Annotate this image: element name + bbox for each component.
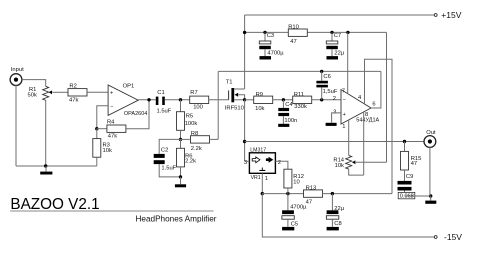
ground symbol C4	[278, 116, 289, 127]
wire pin4 supply route	[365, 59, 393, 193]
svg-text:R10: R10	[288, 25, 299, 31]
svg-text:22µ: 22µ	[334, 206, 344, 212]
svg-text:Input: Input	[11, 67, 24, 73]
resistor R8	[191, 131, 210, 152]
node A R5-R8-R6-C2	[179, 138, 182, 141]
svg-text:-15V: -15V	[444, 232, 462, 242]
capacitor C4	[278, 100, 297, 124]
svg-text:R9: R9	[256, 92, 263, 98]
svg-text:10k: 10k	[335, 163, 344, 169]
wire input shield down	[15, 86, 17, 167]
wire R1 bottom to ground rail	[45, 100, 47, 166]
wire T1 drain to +15 rail	[244, 32, 246, 89]
node rail C7 junction	[330, 31, 333, 34]
resistor R4	[107, 120, 126, 140]
wire R2 to OP1 noninv	[87, 91, 108, 93]
node C6 bottom junction	[320, 98, 323, 101]
svg-text:IRF510: IRF510	[225, 105, 244, 111]
svg-text:1,5uF: 1,5uF	[323, 89, 338, 95]
resistor R13	[304, 186, 323, 206]
voltage regulator VR1 LM317	[244, 148, 281, 183]
potentiometer R1	[28, 86, 49, 100]
node rail C3 junction	[263, 31, 266, 34]
node OP1 output junction	[147, 98, 150, 101]
resistor R10	[288, 25, 307, 45]
wire R11 to op-amp pin2	[312, 99, 341, 101]
value box 0.068	[398, 191, 415, 200]
node T1 source junction	[243, 98, 246, 101]
svg-text:100k: 100k	[185, 121, 198, 127]
ground symbol C2-R6	[175, 177, 186, 187]
node R12-C5 junction	[286, 192, 289, 195]
wire input to R1 top	[22, 80, 46, 87]
svg-text:LM317: LM317	[250, 148, 266, 154]
resistor R7	[190, 90, 209, 110]
svg-text:544УД1А: 544УД1А	[356, 117, 379, 123]
wire OP1 output	[138, 99, 156, 101]
wire C2-R6 bottom	[159, 164, 180, 177]
resistor R3	[93, 129, 112, 158]
svg-text:C7: C7	[334, 33, 341, 39]
capacitor C6	[316, 71, 337, 99]
svg-text:1: 1	[265, 176, 268, 182]
wire T1 source to R9	[245, 99, 254, 101]
node output takeoff junction	[243, 140, 246, 143]
svg-text:BAZOO V2.1: BAZOO V2.1	[10, 196, 99, 213]
svg-text:C8: C8	[334, 221, 341, 227]
input connector J-in	[10, 67, 24, 85]
node R1-ground junction	[44, 164, 47, 167]
node pin1-adj junction	[261, 192, 264, 195]
transistor T1 IRF510	[225, 80, 245, 112]
svg-text:4700µ: 4700µ	[290, 204, 307, 210]
svg-text:6: 6	[372, 101, 375, 107]
svg-text:100n: 100n	[284, 118, 297, 124]
ground symbol left rail	[40, 166, 52, 175]
svg-text:HeadPhones Amplifier: HeadPhones Amplifier	[136, 214, 217, 223]
capacitor C7	[326, 32, 345, 56]
svg-text:−: −	[343, 98, 346, 104]
title text	[10, 196, 99, 213]
node rail pin7 junction	[346, 31, 349, 34]
wire pin7 to +15 rail	[347, 32, 349, 93]
ground symbol op-amp pin3	[326, 123, 337, 126]
node feedback C6 junction	[320, 70, 323, 73]
svg-text:+: +	[110, 90, 113, 96]
svg-text:1.5uF: 1.5uF	[161, 166, 176, 172]
svg-text:22µ: 22µ	[334, 51, 344, 57]
svg-text:1: 1	[342, 124, 345, 130]
wire R7 to T1 gate	[209, 99, 229, 101]
wire node A to C2	[159, 139, 180, 154]
resistor R12	[284, 169, 304, 188]
node R15 junction	[403, 140, 406, 143]
wire R12 bottom	[287, 188, 289, 194]
wire adj rail left	[262, 193, 304, 195]
wire OP1 inv input	[97, 106, 108, 129]
wire VR1 pin2 to R12	[275, 161, 288, 169]
svg-text:4700µ: 4700µ	[267, 51, 284, 57]
svg-text:47: 47	[306, 199, 312, 205]
ground symbol C3	[260, 49, 272, 59]
svg-text:R13: R13	[306, 186, 317, 192]
node rail-drain junction	[243, 31, 246, 34]
resistor R2	[68, 84, 87, 104]
svg-text:+15V: +15V	[441, 10, 461, 20]
wire pin8 down	[363, 112, 365, 175]
op-amp OP1	[108, 84, 147, 117]
svg-text:100: 100	[193, 105, 203, 111]
op-amp U2 544УД1А	[333, 88, 380, 129]
wire R4 to OP1 output	[126, 100, 149, 129]
wire output line to jack	[245, 141, 424, 143]
svg-text:R5: R5	[186, 114, 193, 120]
svg-text:C2: C2	[161, 148, 168, 154]
capacitor C1	[156, 90, 172, 114]
svg-text:R8: R8	[191, 131, 198, 137]
wire VR1 pin1 down	[261, 173, 263, 193]
svg-text:OPA2604: OPA2604	[124, 111, 147, 117]
capacitor C3	[259, 32, 284, 56]
svg-text:47k: 47k	[108, 134, 117, 140]
svg-text:C1: C1	[157, 90, 164, 96]
wire R5 to node A	[180, 130, 182, 139]
wire source node down to VR1	[244, 100, 246, 162]
wire +15V rail top	[245, 15, 435, 32]
svg-text:C5: C5	[291, 221, 298, 227]
svg-text:50k: 50k	[28, 93, 37, 99]
wire +15 distribution rail	[245, 31, 387, 33]
capacitor C9	[398, 170, 414, 191]
svg-text:Out: Out	[426, 130, 436, 136]
wire jack shield down	[429, 147, 432, 200]
svg-text:0.068: 0.068	[400, 194, 414, 200]
svg-text:330k: 330k	[294, 104, 307, 110]
svg-text:OP1: OP1	[123, 84, 135, 90]
resistor R11	[293, 92, 312, 110]
svg-text:2.2k: 2.2k	[185, 158, 196, 164]
node R4-R3-inv junction	[95, 127, 98, 130]
svg-text:10k: 10k	[103, 148, 112, 154]
capacitor C5	[282, 194, 307, 228]
svg-text:VR1: VR1	[251, 175, 261, 181]
wire R3 bottom to ground rail	[96, 157, 98, 166]
svg-text:10: 10	[293, 180, 299, 186]
svg-text:47: 47	[411, 161, 417, 167]
ground symbol output jack	[425, 201, 436, 204]
svg-text:T1: T1	[226, 80, 233, 86]
wire R8 to feedback riser	[210, 138, 218, 140]
node C2-R6 ground junction	[179, 175, 182, 178]
terminal -15V	[434, 232, 462, 242]
svg-text:47k: 47k	[69, 98, 78, 104]
wire pin3 noninv to ground	[332, 113, 341, 123]
wire ground rail left	[16, 165, 97, 167]
wire R14 bottom to pin8	[349, 169, 364, 175]
svg-text:47: 47	[290, 39, 296, 45]
capacitor C2	[154, 148, 177, 172]
ground symbol C8	[327, 219, 339, 230]
ground symbol C5	[282, 219, 294, 230]
wire R1 wiper arrow	[49, 90, 68, 94]
svg-text:C3: C3	[267, 33, 274, 39]
resistor R9	[254, 92, 273, 112]
node rail C8 junction	[331, 192, 334, 195]
svg-text:1.5uF: 1.5uF	[157, 109, 172, 115]
title underline	[10, 210, 213, 212]
resistor R6	[177, 139, 197, 167]
svg-text:10k: 10k	[255, 106, 264, 112]
svg-text:−: −	[110, 104, 113, 110]
wire feedback riser to R8	[217, 71, 219, 139]
svg-text:C4: C4	[285, 102, 293, 108]
wire R9 to R11	[273, 99, 293, 101]
wire node A to R8	[181, 138, 190, 140]
svg-text:R4: R4	[107, 120, 115, 126]
wire -15V rail	[262, 194, 434, 237]
svg-text:2: 2	[278, 160, 281, 166]
node C1-R5 junction	[179, 98, 182, 101]
wire VR1 pin3	[245, 160, 250, 162]
wire C9 to jack ground	[405, 195, 431, 197]
node R9-C4 junction	[282, 98, 285, 101]
svg-text:+: +	[343, 112, 346, 118]
svg-text:7: 7	[342, 88, 345, 94]
node jack ground junction	[429, 194, 432, 197]
wire op-amp output	[371, 71, 381, 108]
wire pin1 down	[348, 120, 350, 155]
svg-text:R11: R11	[294, 92, 304, 98]
terminal +15V	[434, 10, 461, 20]
potentiometer R14	[333, 155, 351, 169]
svg-text:2.2k: 2.2k	[191, 146, 202, 152]
resistor R5	[177, 100, 198, 131]
wire node to R4	[97, 128, 107, 130]
svg-text:2: 2	[333, 96, 336, 102]
wire adj rail right	[322, 193, 392, 195]
wire C1 to R7	[165, 99, 190, 101]
capacitor C8	[326, 194, 344, 228]
svg-text:R2: R2	[69, 84, 76, 90]
wire R14 wiper to +15	[352, 32, 387, 164]
resistor R15	[401, 142, 422, 171]
output connector J-out	[424, 130, 436, 148]
wire feedback top	[218, 70, 381, 72]
svg-text:C9: C9	[406, 174, 413, 180]
ground symbol C7	[327, 49, 339, 59]
svg-text:C6: C6	[323, 74, 330, 80]
subtitle text	[136, 214, 217, 223]
svg-text:R7: R7	[190, 90, 197, 96]
svg-text:3: 3	[244, 160, 247, 166]
